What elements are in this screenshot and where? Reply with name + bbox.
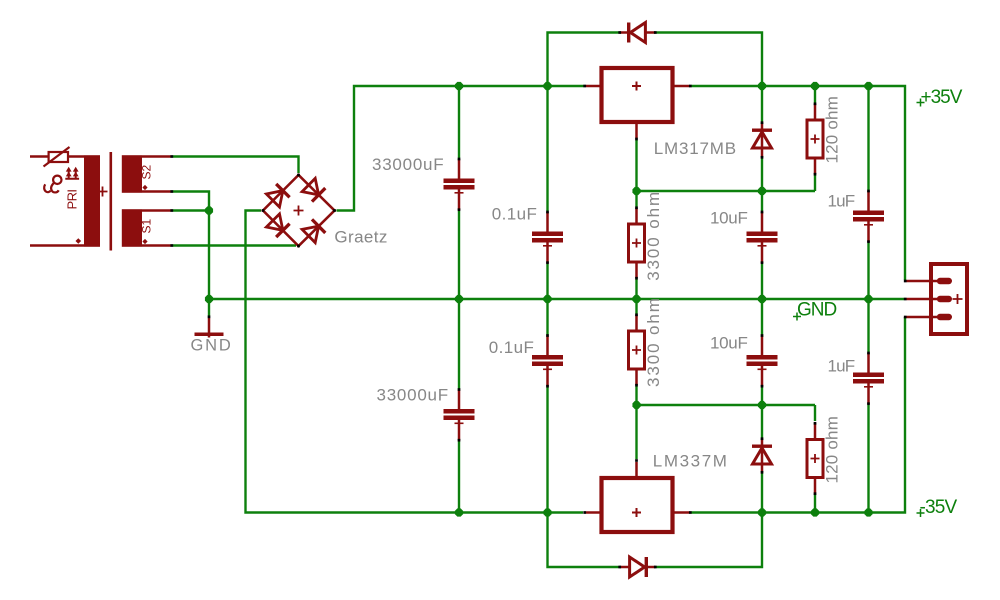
label C7 value 10uF: [710, 334, 748, 353]
label C4 value 1uF: [828, 192, 855, 211]
wire D4 column lower: [761, 474, 763, 513]
capacitor C2 0.1uF: [532, 211, 563, 264]
junction at (636.5,405): [632, 401, 640, 409]
capacitor C1 33000uF: [444, 158, 475, 211]
svg-text:3300 ohm: 3300 ohm: [644, 190, 663, 281]
label C8 value 1uF: [828, 357, 855, 376]
S1 pin wires: [142, 211, 171, 246]
ground symbol GND: [195, 315, 224, 337]
wire LM317 adj pin down: [635, 140, 637, 191]
transformer core: [110, 152, 113, 251]
diode D3 (across R1): [752, 121, 772, 158]
wire C8 column lower: [867, 405, 869, 513]
wire LM337 adj pin up: [635, 405, 637, 459]
U2 input pin: [583, 511, 599, 514]
wire C4 column lower: [867, 243, 869, 299]
label C1 value 33000uF: [372, 155, 444, 174]
net label +35V: [917, 87, 963, 108]
svg-text:33000uF: 33000uF: [377, 386, 449, 405]
junction at (547.5,86): [543, 82, 551, 90]
wire +35V rail from LM317 output to connector pin1: [692, 86, 906, 280]
wire bottom diode loop right: [657, 513, 763, 568]
svg-text:120 ohm: 120 ohm: [823, 96, 842, 164]
resistor R3 3300 ohm: [629, 313, 645, 386]
label R4 value 120 ohm: [823, 416, 842, 484]
label C3 value 10uF: [710, 209, 748, 228]
wire -35V rail from LM337 output to connector pin3: [692, 317, 906, 513]
wire bridge plus up to +rail, to LM317 input: [337, 86, 584, 211]
svg-text:33000uF: 33000uF: [372, 155, 444, 174]
bridge pin ends: [262, 174, 336, 248]
U2 origin cross: [632, 508, 641, 517]
junction at (459,512.5): [455, 508, 463, 516]
U1 origin cross: [632, 82, 641, 91]
bridge diode (AC2 to +): [302, 219, 325, 242]
capacitor C3 10uF: [747, 211, 778, 264]
svg-text:LM337M: LM337M: [653, 452, 729, 471]
svg-text:1uF: 1uF: [828, 192, 855, 211]
svg-text:Graetz: Graetz: [334, 228, 387, 247]
junction at (209,299): [205, 295, 213, 303]
wire bridge minus to -35V unreg rail: [246, 211, 584, 513]
wire C1 column lower: [458, 211, 460, 299]
connector pin 1: [904, 280, 949, 283]
wire R4 top lead: [814, 405, 816, 421]
wire C3 column lower: [761, 264, 763, 299]
wire net S2-bot to center tap: [173, 192, 209, 211]
svg-text:3300 ohm: 3300 ohm: [644, 296, 663, 387]
label PRI: [65, 190, 80, 210]
junction at (459,299): [455, 295, 463, 303]
label R1 value 120 ohm: [823, 96, 842, 164]
resistor R1 120 ohm: [807, 102, 823, 175]
svg-text:LM317MB: LM317MB: [654, 139, 737, 158]
connector pin 2: [904, 298, 949, 301]
wire bottom diode loop left: [548, 513, 619, 568]
diode D4 (across R4): [752, 437, 772, 473]
wire R3 top lead: [635, 299, 637, 314]
wire R2 bottom lead: [635, 280, 637, 300]
junction at (815,512.5): [811, 508, 819, 516]
bridge origin cross: [294, 206, 304, 216]
junction at (459,86): [455, 82, 463, 90]
transformer primary pin wires: [30, 157, 84, 246]
resistor R2 3300 ohm: [629, 206, 645, 279]
wire C7 column upper: [761, 299, 763, 335]
capacitor C4 1uF: [853, 190, 884, 243]
junction at (868.5,299): [864, 295, 872, 303]
svg-text:PRI: PRI: [65, 190, 80, 210]
junction at (762,512.5): [758, 508, 766, 516]
wire C7 column lower: [761, 388, 763, 406]
S2 pin ends: [170, 155, 173, 193]
junction at (209,210.5): [205, 206, 213, 214]
S2 polarity dot: [142, 185, 147, 190]
junction at (547.5,512.5): [543, 508, 551, 516]
wire C1 column upper: [458, 86, 460, 158]
wire C5 column upper: [458, 299, 460, 389]
capacitor C7 10uF: [747, 334, 778, 387]
wire R1 top lead: [814, 86, 816, 103]
net label GND: [793, 300, 837, 321]
bridge diode (- to AC1): [266, 184, 289, 207]
label R2 value 3300 ohm: [644, 190, 663, 281]
wire C4 column upper: [867, 86, 869, 190]
svg-text:+35V: +35V: [921, 87, 963, 108]
connector X1 body: [931, 264, 967, 334]
junction at (547.5,299): [543, 295, 551, 303]
label S1: [140, 218, 154, 233]
transformer primary winding: [84, 155, 100, 247]
connector origin cross: [953, 294, 963, 304]
net label -35V: [917, 497, 958, 518]
junction at (762,86): [758, 82, 766, 90]
junction at (868.5,86): [864, 82, 872, 90]
thermal cutout curl: [44, 176, 61, 193]
transformer winding arrows: [65, 167, 79, 179]
transformer secondary S2 winding: [122, 155, 142, 193]
junction at (762,191): [758, 187, 766, 195]
wire center tap down to GND rail: [208, 211, 210, 300]
svg-text:0.1uF: 0.1uF: [489, 338, 534, 357]
transformer origin cross: [98, 187, 108, 197]
diode D1 (LM317 protection): [618, 23, 656, 43]
resistor R4 120 ohm: [807, 422, 823, 495]
label S2: [140, 164, 154, 179]
wire C3 column upper: [761, 191, 763, 211]
wire C6 column upper: [546, 299, 548, 335]
svg-text:-35V: -35V: [920, 497, 958, 518]
junction at (762,405): [758, 401, 766, 409]
junction at (868.5,512.5): [864, 508, 872, 516]
label R3 value 3300 ohm: [644, 296, 663, 387]
wire D3 column upper: [761, 86, 763, 122]
label U1 LM317MB: [654, 139, 737, 158]
wire top diode loop left: [548, 33, 619, 87]
junction at (762,299): [758, 295, 766, 303]
wire R4 bottom lead: [814, 494, 816, 513]
wire GND symbol stub: [208, 299, 210, 316]
U2 output pin: [675, 511, 692, 514]
wire C6 column lower: [546, 388, 548, 513]
svg-text:S2: S2: [140, 164, 154, 179]
svg-text:GND: GND: [191, 337, 233, 355]
bridge diode (AC1 to +): [302, 178, 325, 201]
wire net S1-top to center tap: [173, 209, 209, 211]
connector pin 3: [904, 316, 949, 319]
wire C2 column upper: [546, 86, 548, 211]
wire C2 column lower: [546, 264, 548, 299]
wire C5 column lower: [458, 442, 460, 513]
S1 polarity dot: [142, 239, 147, 244]
svg-text:1uF: 1uF: [828, 357, 855, 376]
capacitor C8 1uF: [853, 352, 884, 405]
label C6 value 0.1uF: [489, 338, 534, 357]
S1 pin ends: [170, 209, 173, 247]
op-amp/regulator U2 LM337M body: [602, 478, 673, 532]
bridge rectifier Graetz outline: [263, 175, 335, 246]
svg-text:10uF: 10uF: [710, 209, 748, 228]
primary polarity dot: [76, 238, 82, 244]
svg-text:120 ohm: 120 ohm: [823, 416, 842, 484]
wire net S1-bot to bridge AC2: [173, 244, 296, 246]
junction at (636.5,299): [632, 295, 640, 303]
capacitor C6 0.1uF: [532, 334, 563, 387]
svg-text:0.1uF: 0.1uF: [492, 205, 537, 224]
label C2 value 0.1uF: [492, 205, 537, 224]
junction at (636.5,191): [632, 187, 640, 195]
wire top diode loop right: [657, 33, 763, 87]
svg-text:10uF: 10uF: [710, 334, 748, 353]
svg-text:S1: S1: [140, 218, 154, 233]
U1 adj pin: [635, 124, 638, 140]
wire R2 top lead: [635, 191, 637, 207]
capacitor C5 33000uF: [444, 388, 475, 441]
junction at (815,86): [811, 82, 819, 90]
wire D4 column upper: [761, 405, 763, 438]
wire top ADJ line: [637, 190, 816, 192]
transformer secondary S1 winding: [122, 209, 142, 247]
fuse F1 on primary: [44, 147, 70, 167]
label GND (symbol name): [191, 337, 233, 355]
wire R3 bottom lead: [635, 387, 637, 406]
label C5 value 33000uF: [377, 386, 449, 405]
S2 pin wires: [142, 157, 171, 192]
label Graetz: [334, 228, 387, 247]
op-amp/regulator U1 LM317MB body: [602, 68, 673, 122]
label U2 LM337M: [653, 452, 729, 471]
wire net S2-top to bridge AC1: [173, 157, 299, 174]
wire bottom ADJ line: [637, 404, 816, 406]
U1 input pin: [583, 85, 599, 88]
bridge diode (- to AC2): [266, 214, 289, 237]
diode D2 (LM337 protection): [618, 557, 656, 577]
wire D3 column lower: [761, 159, 763, 192]
U2 adj pin: [635, 459, 638, 476]
U1 output pin: [675, 85, 692, 88]
svg-text:GND: GND: [797, 300, 837, 321]
wire C8 column upper: [867, 299, 869, 352]
wire R1 bottom lead: [814, 176, 816, 192]
wire GND rail: [209, 298, 904, 300]
